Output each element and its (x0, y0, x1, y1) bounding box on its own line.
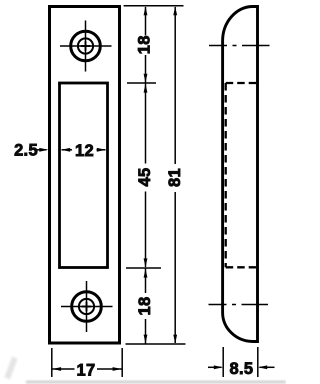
screw hole top: outer circle (71, 31, 101, 61)
svg-text:45: 45 (136, 168, 154, 187)
scan artifact: bottom-left smudge (4, 357, 17, 380)
screw hole top: inner circle (78, 38, 93, 53)
extension line bottom (126, 343, 186, 345)
latch cutout rectangle (60, 83, 108, 268)
extension line top (124, 5, 184, 7)
dimension 17 extension lines (52, 348, 122, 377)
dimension 12 arrows (62, 149, 106, 151)
svg-text:12: 12 (75, 142, 94, 160)
scan artifact: bottom gray streak (26, 381, 286, 383)
side view centerline bottom (209, 304, 269, 306)
extension line cutout top (127, 82, 156, 84)
dimension 8.5 extension lines (223, 347, 258, 377)
dimension 81 line (174, 7, 176, 343)
svg-text:18: 18 (135, 35, 153, 54)
svg-text:8.5: 8.5 (229, 360, 253, 378)
screw hole bottom: outer circle (72, 292, 102, 322)
dimension 17 line and arrows (52, 368, 121, 370)
extension line cutout bottom (126, 267, 161, 269)
screw hole top: crosshair lines (60, 21, 112, 72)
screw hole bottom: crosshair lines (61, 281, 113, 332)
screw hole bottom: center cross (82, 302, 92, 312)
screw hole bottom: inner circle (79, 299, 94, 314)
side view hidden cutout dashed lines (226, 83, 257, 267)
side view outline (223, 7, 258, 342)
dimension 2.5 arrow (37, 149, 47, 151)
svg-text:81: 81 (166, 168, 184, 187)
side view centerline top (209, 45, 270, 47)
svg-text:18: 18 (136, 297, 154, 316)
dimension 8.5 outside arrows (208, 366, 275, 368)
arrowheads vertical dims (144, 6, 178, 343)
plate outline (front view) (50, 7, 120, 344)
svg-text:2.5: 2.5 (14, 141, 38, 159)
screw hole top: center cross (81, 41, 91, 51)
dimension chain line segments (145, 7, 147, 344)
svg-text:17: 17 (77, 361, 96, 379)
